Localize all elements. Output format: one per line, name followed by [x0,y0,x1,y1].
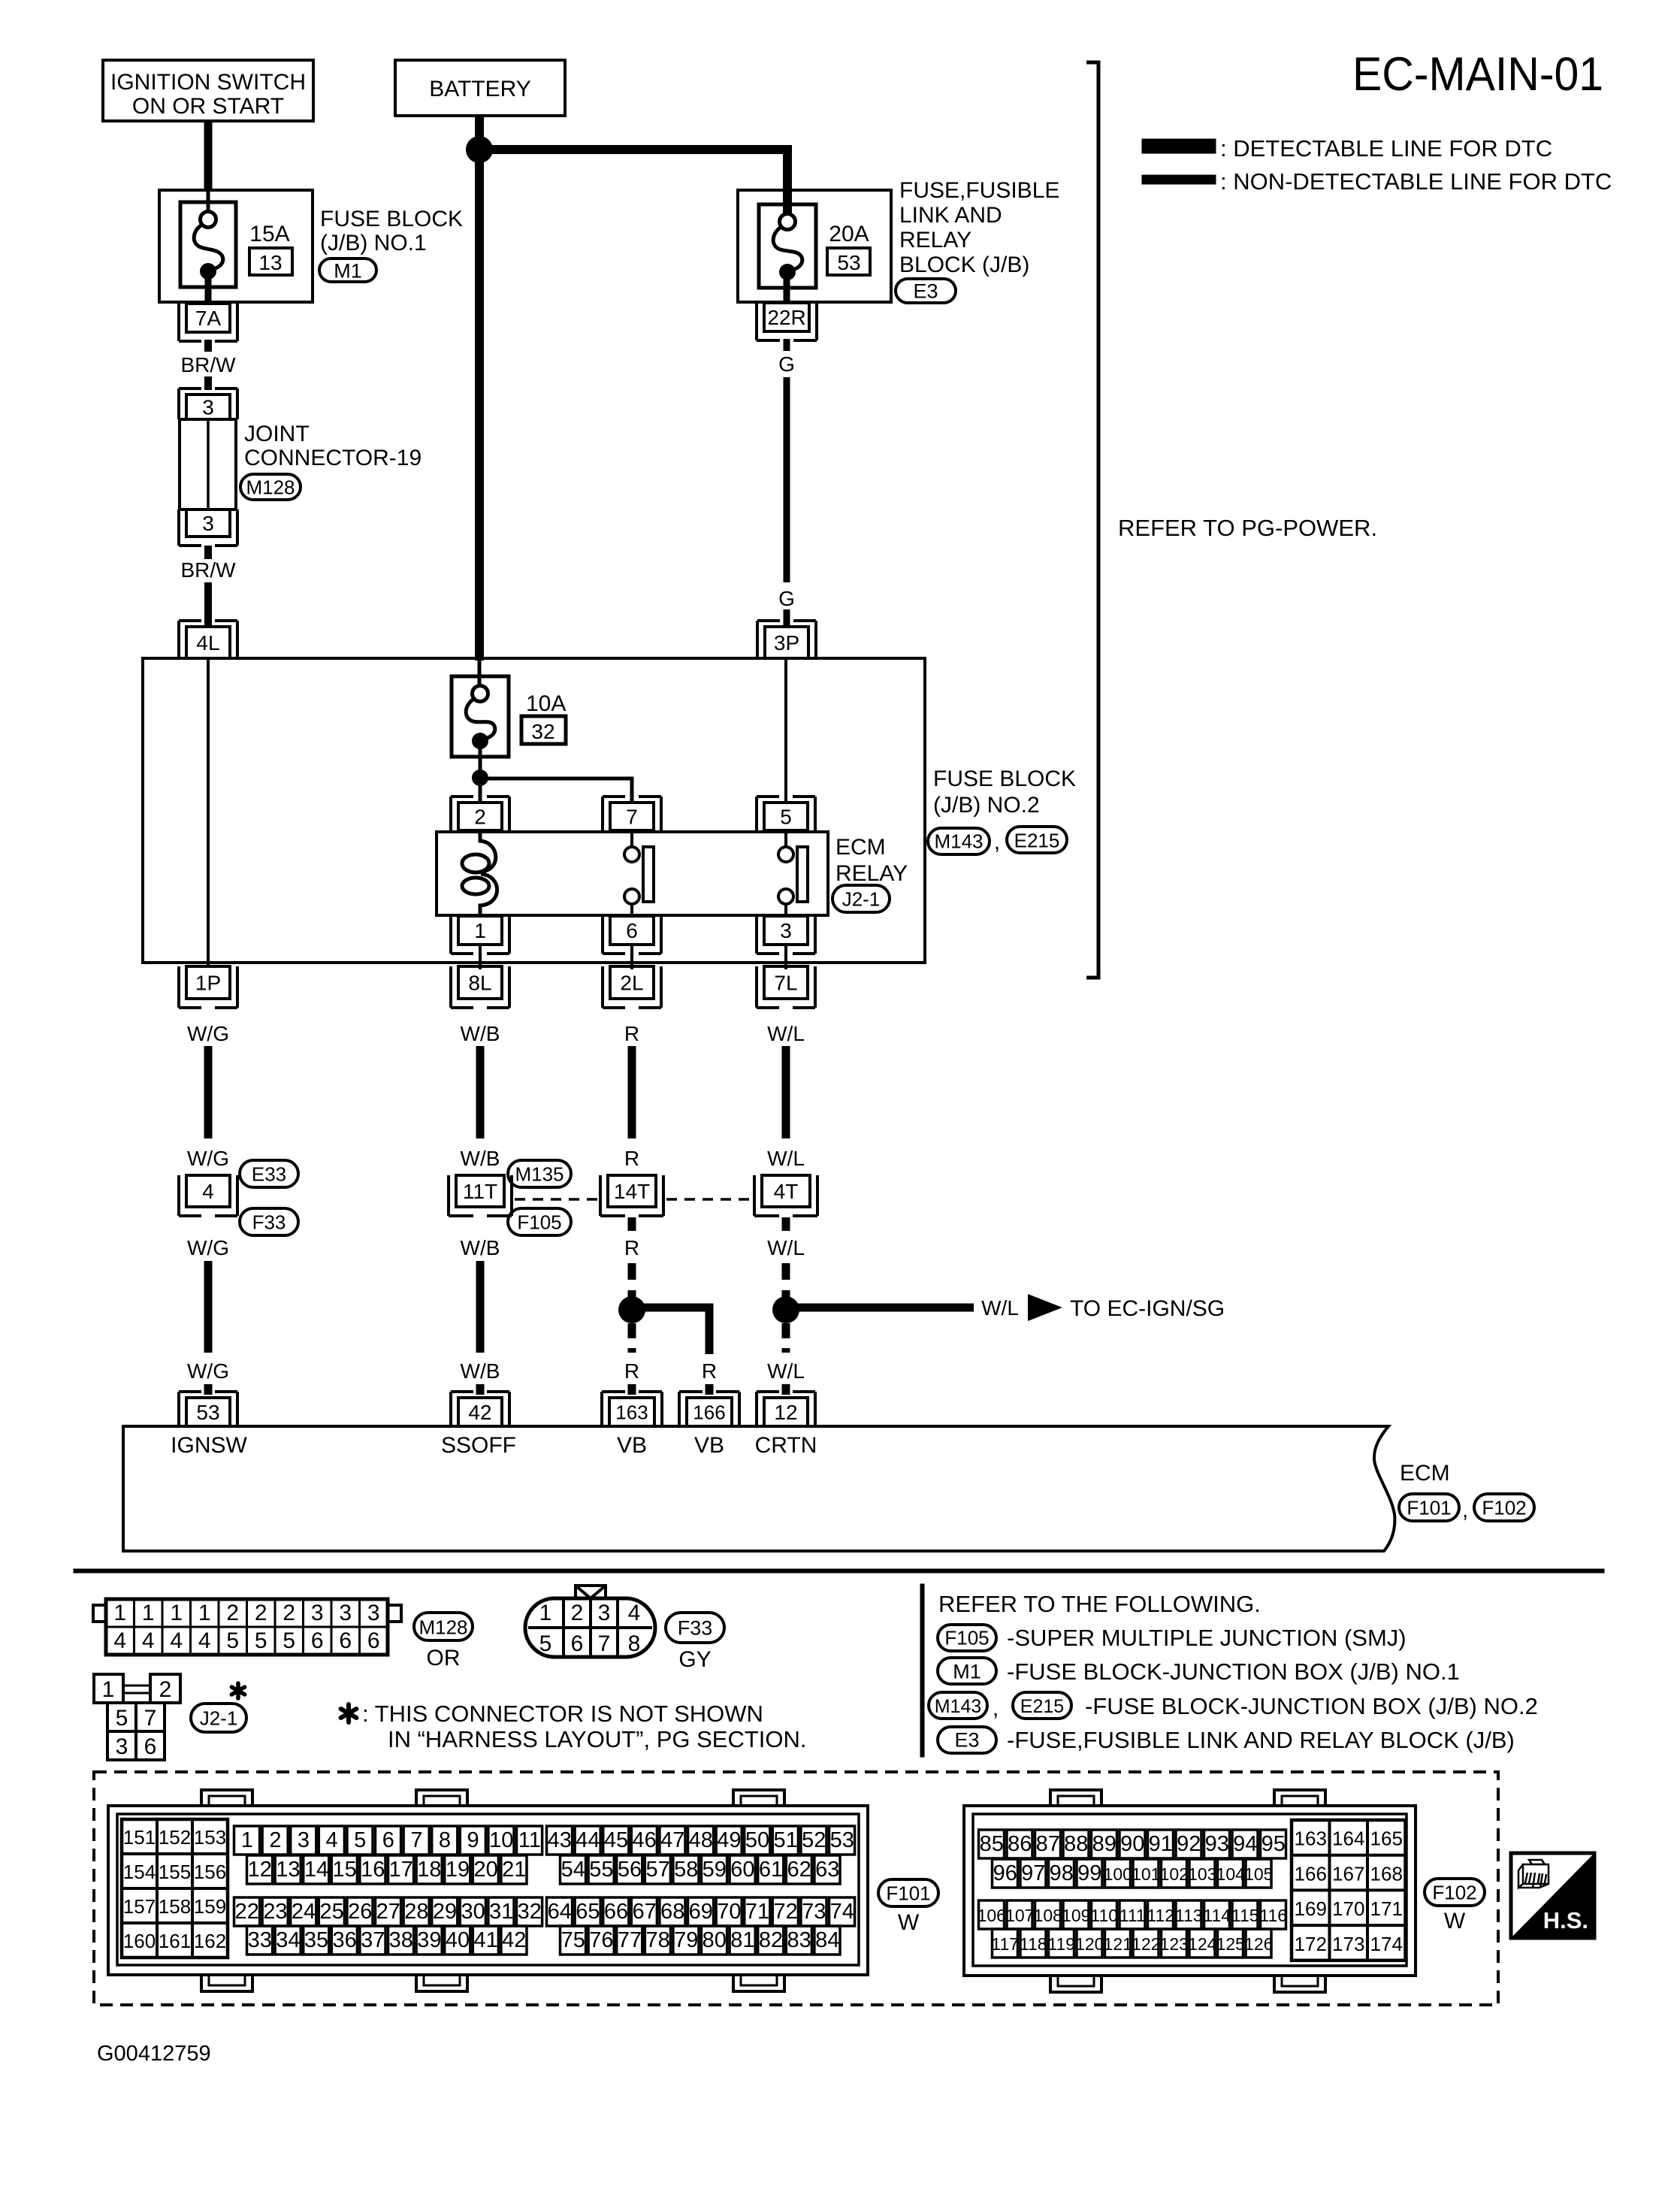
svg-text:4: 4 [326,1828,338,1852]
fuse block J/B no.1 box M1 [159,190,313,302]
svg-text:R: R [702,1359,717,1383]
svg-text:BR/W: BR/W [180,353,236,376]
svg-text:20A: 20A [829,222,869,246]
svg-text:W/B: W/B [461,1236,500,1259]
fuse 15A [180,202,236,287]
svg-text:BLOCK (J/B): BLOCK (J/B) [899,252,1029,277]
svg-text:43: 43 [548,1828,572,1852]
svg-text:81: 81 [730,1928,754,1952]
svg-text:42: 42 [502,1928,526,1952]
svg-text:M143: M143 [935,1696,982,1717]
svg-text:F101: F101 [1407,1496,1451,1519]
svg-text:40: 40 [446,1928,470,1952]
F102 pin grid 163-174 [1292,1820,1406,1961]
ECM connector F102 shell [964,1806,1416,1976]
svg-text:W: W [1444,1909,1466,1933]
svg-text:31: 31 [489,1900,513,1924]
svg-text:107: 107 [1005,1906,1034,1925]
svg-text:E3: E3 [913,280,938,303]
wire W/G run1 [204,1046,213,1138]
svg-text:W/G: W/G [187,1022,229,1045]
connector 7L [764,966,808,999]
wire 3P to pin5 internal [784,658,787,804]
svg-text:53: 53 [830,1828,854,1852]
refer-to bracket [1086,62,1098,978]
svg-text:123: 123 [1160,1934,1189,1954]
svg-text:4: 4 [113,1628,126,1653]
svg-text:58: 58 [674,1858,698,1882]
wire 4L to 1P internal [207,658,210,968]
svg-text:5: 5 [116,1706,128,1731]
svg-text:7: 7 [598,1631,611,1656]
svg-text:97: 97 [1021,1861,1045,1885]
svg-text:32: 32 [518,1900,542,1924]
svg-text:E215: E215 [1020,1696,1064,1717]
junction dot battery [466,136,493,163]
relay pin 1 connector [458,916,502,945]
svg-text:108: 108 [1034,1906,1062,1925]
svg-text:M1: M1 [334,260,362,283]
svg-text:IN “HARNESS LAYOUT”, PG SECTIO: IN “HARNESS LAYOUT”, PG SECTION. [388,1726,807,1752]
svg-text:SSOFF: SSOFF [441,1433,516,1458]
F101 pins 75-84 [561,1926,586,1955]
svg-text:87: 87 [1036,1832,1060,1856]
svg-text:W/G: W/G [187,1359,229,1383]
svg-text:66: 66 [604,1900,628,1924]
dashed detail box [94,1772,1498,2005]
connector 4T inline [762,1175,810,1207]
svg-text:2: 2 [474,806,486,829]
connector 42 ECM [458,1398,502,1426]
svg-text:3P: 3P [774,631,799,655]
wire into 15A fuse [207,190,210,213]
svg-text:R: R [624,1022,639,1045]
junction dot below 10A fuse [472,769,488,786]
svg-text:,: , [994,830,1000,854]
svg-text:ON OR START: ON OR START [132,94,284,119]
fuse block J/B no.2 box [143,658,925,963]
svg-text:119: 119 [1047,1934,1075,1954]
svg-text:47: 47 [660,1828,684,1852]
svg-text:55: 55 [589,1858,613,1882]
oval F33 view [666,1613,724,1643]
svg-text:TO EC-IGN/SG: TO EC-IGN/SG [1070,1296,1225,1321]
M128 grid right tab [388,1605,401,1622]
svg-text:33: 33 [248,1928,272,1952]
svg-text:W/L: W/L [767,1359,805,1383]
svg-text:7: 7 [626,806,638,829]
svg-text:F105: F105 [944,1626,989,1649]
svg-text:ECM: ECM [1400,1461,1450,1486]
svg-text:VB: VB [694,1433,724,1458]
fuse number 53 box [827,248,870,275]
svg-text:34: 34 [276,1928,300,1952]
svg-text:166: 166 [1295,1862,1327,1885]
svg-text:166: 166 [693,1401,725,1423]
svg-text:78: 78 [645,1928,669,1952]
svg-text:170: 170 [1332,1897,1364,1920]
dashed link 14T-4T [666,1198,753,1201]
svg-text:45: 45 [604,1828,628,1852]
svg-text:163: 163 [1295,1828,1327,1850]
svg-text:2: 2 [283,1601,295,1625]
wire R stub to 166 [706,1384,714,1395]
separator line [74,1569,1604,1573]
svg-text:E215: E215 [1014,829,1060,851]
ECM relay box [437,832,828,915]
svg-text:118: 118 [1020,1934,1047,1954]
svg-text:22R: 22R [767,306,805,329]
wire W/L dashed below dot [782,1323,790,1353]
svg-text:106: 106 [977,1906,1006,1925]
svg-text:-FUSE BLOCK-JUNCTION BOX (J/B): -FUSE BLOCK-JUNCTION BOX (J/B) NO.1 [1007,1658,1460,1685]
wire 15A dot to 7A [205,277,212,305]
wire W/B run2 [476,1261,485,1353]
svg-text:2L: 2L [620,972,643,995]
svg-text:101: 101 [1132,1864,1160,1884]
wire G run [784,377,790,582]
connector 53 ECM [186,1398,230,1426]
relay pin 7 connector [610,803,654,830]
note asterisk [346,1704,351,1722]
wire W/B run1 [476,1046,485,1138]
svg-text:8: 8 [439,1828,451,1852]
F101 pins 12-21 [247,1855,273,1884]
svg-text:41: 41 [473,1928,497,1952]
svg-text:122: 122 [1132,1934,1160,1954]
svg-text:23: 23 [263,1900,287,1924]
svg-text:F102: F102 [1482,1496,1526,1519]
connector 3P [765,627,808,658]
svg-text:13: 13 [276,1858,300,1882]
wire 22R stub [784,339,790,351]
svg-text:5: 5 [354,1828,366,1852]
ECM box [123,1426,1394,1551]
svg-text:12: 12 [248,1858,272,1882]
svg-text:W/G: W/G [187,1147,229,1170]
svg-text:W/B: W/B [461,1359,500,1383]
svg-text:IGNITION SWITCH: IGNITION SWITCH [110,70,306,95]
wire battery down [475,116,484,661]
legend detectable line sample [1142,139,1216,153]
oval E33 [240,1160,298,1187]
svg-text:152: 152 [159,1826,191,1849]
svg-text:1: 1 [198,1601,211,1625]
svg-text:6: 6 [339,1628,352,1653]
svg-text:157: 157 [123,1895,156,1918]
svg-text:173: 173 [1332,1933,1364,1955]
svg-text:62: 62 [787,1858,811,1882]
svg-text:163: 163 [615,1401,648,1423]
svg-text:-SUPER MULTIPLE JUNCTION (SMJ): -SUPER MULTIPLE JUNCTION (SMJ) [1007,1625,1407,1651]
svg-text:FUSE BLOCK: FUSE BLOCK [933,766,1076,791]
connector 7A [186,304,230,332]
svg-text:11: 11 [518,1828,541,1852]
svg-text:102: 102 [1160,1864,1189,1884]
svg-text:2: 2 [255,1601,267,1625]
svg-text:75: 75 [561,1928,585,1952]
svg-text:169: 169 [1295,1897,1327,1920]
svg-text:69: 69 [689,1900,713,1924]
F101 pins 33-42 [247,1926,273,1955]
svg-text:92: 92 [1177,1832,1201,1856]
svg-text:F33: F33 [252,1211,286,1233]
svg-text:-FUSE BLOCK-JUNCTION BOX (J/B): -FUSE BLOCK-JUNCTION BOX (J/B) NO.2 [1085,1693,1538,1719]
svg-text:120: 120 [1075,1934,1104,1954]
svg-text:105: 105 [1244,1864,1273,1884]
F102 pins 117-126 [993,1929,1018,1958]
svg-text:160: 160 [123,1930,156,1952]
svg-text:6: 6 [382,1828,394,1852]
svg-text:32: 32 [531,720,554,743]
svg-text:1: 1 [241,1828,253,1852]
wire pin6 to 2L [630,945,633,969]
svg-text:F33: F33 [678,1617,713,1640]
svg-text:M128: M128 [246,476,295,498]
svg-text:: DETECTABLE LINE FOR DTC: : DETECTABLE LINE FOR DTC [1220,135,1552,162]
oval J2-1 view [191,1704,246,1732]
svg-text:68: 68 [660,1900,684,1924]
svg-text:7L: 7L [774,972,797,995]
svg-text:165: 165 [1370,1828,1403,1850]
wire below joint connector [204,546,212,559]
svg-text:1: 1 [113,1601,126,1625]
svg-text:17: 17 [389,1858,413,1882]
svg-text:168: 168 [1370,1862,1403,1885]
connector 11T inline [456,1175,504,1207]
svg-text:158: 158 [159,1895,191,1918]
svg-text:3: 3 [298,1828,310,1852]
svg-text:2: 2 [159,1677,172,1702]
oval F102 view [1425,1879,1485,1906]
svg-text:114: 114 [1203,1906,1231,1925]
dashed link 11T-14T [515,1198,599,1201]
svg-text:28: 28 [404,1900,428,1924]
svg-text:37: 37 [361,1928,385,1952]
oval M135 [508,1160,571,1187]
oval E3 list [938,1727,996,1753]
wire BR/W to 4L [204,582,212,627]
svg-text:4L: 4L [196,631,219,655]
oval E215 list [1013,1692,1071,1719]
svg-text:153: 153 [194,1826,226,1849]
svg-text:M128: M128 [418,1616,467,1638]
svg-text:57: 57 [645,1858,669,1882]
svg-text:174: 174 [1370,1933,1403,1955]
svg-text:76: 76 [589,1928,613,1952]
svg-text:F105: F105 [517,1211,561,1233]
svg-text:E3: E3 [954,1729,979,1752]
svg-text:BATTERY: BATTERY [429,77,531,101]
svg-text:79: 79 [674,1928,698,1952]
svg-text:89: 89 [1092,1832,1116,1856]
svg-text:64: 64 [548,1900,572,1924]
svg-text:126: 126 [1244,1934,1273,1954]
svg-text:5: 5 [255,1628,267,1653]
connector 14T inline [608,1175,656,1207]
svg-text:74: 74 [830,1900,854,1924]
svg-text:10A: 10A [526,691,566,716]
svg-text:159: 159 [194,1895,226,1918]
F33 top key tab [576,1586,606,1598]
oval E215 [1007,827,1067,853]
connector 166 ECM [687,1398,732,1426]
svg-text:7A: 7A [195,307,222,330]
ECM connector F101 shell [108,1806,868,1975]
svg-text:25: 25 [319,1900,343,1924]
svg-text:93: 93 [1205,1832,1229,1856]
svg-text:125: 125 [1216,1934,1245,1954]
wire R branch to 166 [632,1308,709,1354]
svg-text:W: W [898,1910,920,1935]
svg-text:16: 16 [361,1858,385,1882]
svg-text:82: 82 [759,1928,783,1952]
svg-text:FUSE BLOCK: FUSE BLOCK [320,207,463,231]
svg-text:JOINT: JOINT [244,422,310,446]
wire ignition to fuse block [204,121,213,191]
oval M143 list [929,1692,987,1719]
svg-text:W/L: W/L [767,1022,805,1045]
svg-text:117: 117 [991,1934,1019,1954]
F102 pins 106-116 [979,1900,1005,1929]
svg-text:R: R [624,1147,639,1170]
svg-text:59: 59 [703,1858,727,1882]
svg-text:155: 155 [159,1861,191,1883]
svg-text:M1: M1 [953,1661,981,1683]
wire R stub to 163 [628,1384,636,1395]
svg-text:: NON-DETECTABLE LINE FOR DTC: : NON-DETECTABLE LINE FOR DTC [1220,168,1612,195]
svg-text:REFER TO THE FOLLOWING.: REFER TO THE FOLLOWING. [938,1591,1261,1617]
svg-text:4: 4 [198,1628,211,1653]
svg-text:14T: 14T [614,1180,650,1203]
F102 pins 96-105 [993,1859,1018,1888]
wire W/L dashed run [782,1263,790,1298]
wire R run1 [628,1046,636,1138]
relay pin 6 connector [610,916,654,945]
svg-text:172: 172 [1295,1933,1327,1955]
svg-text:CRTN: CRTN [755,1433,817,1458]
relay pin 5 connector [764,803,808,830]
svg-text:(J/B) NO.1: (J/B) NO.1 [320,231,427,255]
svg-text:29: 29 [433,1900,457,1924]
legend non-detectable line sample [1142,175,1216,184]
svg-text:53: 53 [837,251,860,274]
svg-text:2: 2 [269,1828,281,1852]
fuse 20A [759,204,816,288]
arrow to EC-IGN/SG [1028,1294,1062,1321]
svg-text:LINK AND: LINK AND [899,203,1002,228]
fuse number 13 box [249,248,292,275]
svg-text:110: 110 [1090,1906,1118,1925]
svg-text:38: 38 [389,1928,413,1952]
svg-text:91: 91 [1149,1832,1173,1856]
svg-text:100: 100 [1104,1864,1132,1884]
relay contact pins 7-6 [630,830,633,847]
svg-text:61: 61 [759,1858,783,1882]
svg-text:156: 156 [194,1861,226,1883]
svg-text:W/L: W/L [767,1236,805,1259]
svg-text:1: 1 [170,1601,183,1625]
connector 163 ECM [609,1398,654,1426]
svg-text:,: , [993,1696,999,1721]
svg-text:F101: F101 [886,1882,930,1904]
svg-text:FUSE,FUSIBLE: FUSE,FUSIBLE [899,178,1059,203]
wire W/L to EC-IGN/SG [786,1304,974,1312]
svg-text:54: 54 [561,1858,585,1882]
svg-text:W/L: W/L [767,1147,805,1170]
oval M143 [928,828,990,854]
wire W/G stub to 53 [204,1384,213,1395]
svg-text:112: 112 [1147,1906,1174,1925]
wire BR/W to joint connector [204,376,212,390]
connector 4 inline [186,1175,230,1207]
M128 grid left tab [93,1605,106,1622]
oval E3 [896,279,956,303]
oval M1 [319,259,376,282]
svg-text:6: 6 [311,1628,324,1653]
F101 pins 43-53 [547,1826,573,1855]
wire R dashed below dot [628,1323,636,1353]
wire fuse to junction [479,742,482,804]
svg-text:1: 1 [102,1677,115,1702]
svg-text:42: 42 [468,1401,491,1424]
connector 4L [186,627,230,658]
svg-text:46: 46 [632,1828,656,1852]
svg-text:98: 98 [1050,1861,1074,1885]
svg-text:18: 18 [417,1858,441,1882]
svg-text:50: 50 [745,1828,769,1852]
wire W/L stub to 12 [782,1384,790,1395]
svg-text:3: 3 [116,1734,128,1759]
svg-text:OR: OR [427,1646,461,1670]
svg-text:(J/B) NO.2: (J/B) NO.2 [933,793,1040,818]
oval F105 schematic [508,1208,571,1235]
svg-text:F102: F102 [1432,1881,1476,1903]
F101 pins 64-74 [547,1897,573,1926]
svg-text:1P: 1P [195,972,221,995]
svg-text:21: 21 [502,1858,526,1882]
oval M128 view [414,1613,473,1640]
wire 20A dot to 22R [784,278,790,304]
fuse fusible link block box E3 [738,190,891,302]
svg-text:5: 5 [226,1628,239,1653]
svg-text:CONNECTOR-19: CONNECTOR-19 [244,446,422,470]
svg-text:52: 52 [802,1828,826,1852]
svg-text:10: 10 [489,1828,513,1852]
svg-text:R: R [624,1236,639,1259]
svg-text:14: 14 [304,1858,328,1882]
svg-text:164: 164 [1332,1828,1364,1850]
oval M1 list [938,1658,996,1684]
svg-text:35: 35 [304,1928,328,1952]
svg-text:51: 51 [773,1828,797,1852]
fuse 10A [452,676,509,757]
svg-text:6: 6 [626,919,638,942]
oval F105 list [938,1625,996,1651]
svg-text:161: 161 [159,1930,191,1952]
svg-text:9: 9 [467,1828,479,1852]
wire 7A stub [204,340,212,352]
svg-text:171: 171 [1370,1897,1403,1920]
svg-text:84: 84 [815,1928,839,1952]
svg-text:6: 6 [571,1631,584,1656]
svg-text:116: 116 [1259,1906,1287,1925]
oval M128 schematic [240,474,301,500]
svg-text:2: 2 [226,1601,239,1625]
svg-text:70: 70 [717,1900,741,1924]
battery box [395,60,565,116]
wire pin1 to 8L [479,945,482,969]
